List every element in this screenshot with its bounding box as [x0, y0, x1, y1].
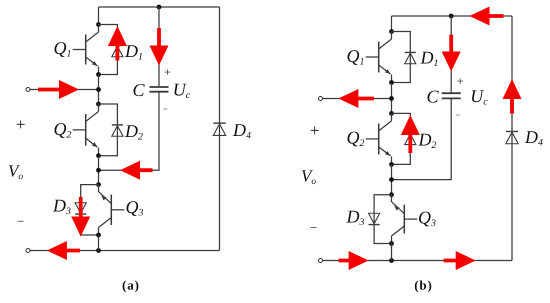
wire: (b) rail Q1-Q2 [391, 83, 393, 114]
svg-text:−: − [17, 214, 24, 229]
wire: (a) D3 branch [81, 185, 99, 235]
wire: (b) capacitor top lead [450, 16, 452, 93]
transistor Q1 (a) [73, 25, 99, 75]
svg-text:Q3: Q3 [418, 208, 436, 230]
diode D1 (b) [405, 52, 416, 63]
arrow (b) bottom current left segment, pointing right [339, 251, 369, 270]
wire: (a) input lead [30, 89, 99, 91]
arrow (b) input current, pointing left [338, 89, 374, 108]
svg-text:Q2: Q2 [347, 128, 365, 150]
wire: (b) D3 branch [374, 195, 391, 244]
diode D4 (a) [213, 123, 225, 135]
wire: (b) rail Q2-tap [391, 164, 393, 194]
arrow (a) D3 current, pointing down [71, 197, 90, 237]
transistor Q2 (a) [73, 104, 99, 156]
diode D2 (a) [112, 125, 123, 136]
node (a) top capacitor tap [157, 5, 162, 10]
arrow (a) freewheel current, pointing left [120, 161, 153, 180]
node (a) D3 top junction [96, 182, 101, 187]
terminal (b) bottom-left [319, 259, 323, 263]
svg-text:D2: D2 [418, 130, 437, 152]
wire: (b) capacitor bottom lead [392, 99, 452, 180]
node (b) Q1 emitter [389, 80, 394, 85]
diode D2 (b) [405, 133, 416, 144]
arrow (b) bottom current right segment, pointing right [444, 251, 476, 270]
node (a) Q1 emitter [96, 72, 101, 77]
capacitor C (a) [150, 86, 169, 88]
node (b) Q2 emitter [389, 162, 394, 167]
svg-text:(a): (a) [122, 278, 140, 293]
svg-text:−: − [310, 220, 317, 235]
svg-text:D4: D4 [524, 127, 543, 149]
node (b) input junction [389, 96, 394, 101]
diode D3 (b) [369, 213, 380, 224]
svg-text:+: + [164, 65, 171, 79]
wire: (a) capacitor bottom lead [99, 92, 160, 170]
node (b) Q1 collector [389, 29, 394, 34]
wire: (b) rail above Q1 [391, 16, 393, 32]
svg-text:+: + [310, 121, 320, 140]
svg-text:D1: D1 [124, 41, 143, 63]
wire: (a) top rail [99, 6, 220, 8]
node (a) Q1 collector [96, 22, 101, 27]
wire: (a) right branch vertical [219, 7, 221, 251]
svg-text:D2: D2 [124, 121, 143, 143]
wire: (b) input lead [323, 98, 392, 100]
wire: (b) top rail [392, 15, 513, 17]
transistor Q2 (b) [366, 113, 392, 164]
svg-text:Uc: Uc [470, 86, 488, 108]
node (b) Q2 collector [389, 111, 394, 116]
wire: (a) rail to bottom [98, 235, 100, 251]
wire: (b) rail to bottom [391, 244, 393, 261]
svg-text:Uc: Uc [173, 80, 191, 102]
transistor Q3 (a) [99, 185, 125, 235]
diode D3 (a) [75, 203, 86, 214]
node (a) D3 bottom junction [96, 233, 101, 238]
node (b) bottom rail junction [389, 258, 394, 263]
wire: (a) capacitor top lead [158, 7, 160, 87]
svg-text:D3: D3 [346, 207, 365, 229]
wire: (a) D2 branch [99, 104, 118, 156]
arrow (a) D1 current, pointing up [108, 26, 127, 61]
svg-text:Q2: Q2 [54, 119, 72, 141]
svg-text:Q3: Q3 [126, 197, 144, 219]
svg-text:(b): (b) [414, 278, 433, 293]
transistor Q3 (b) [392, 195, 418, 244]
svg-text:C: C [132, 80, 145, 100]
svg-text:D1: D1 [420, 48, 439, 70]
node (a) bottom rail junction [96, 248, 101, 253]
svg-text:−: − [163, 104, 168, 114]
node (a) input junction [96, 87, 101, 92]
svg-text:Vo: Vo [301, 167, 316, 188]
terminal (b) input left [319, 97, 323, 101]
transistor Q1 (b) [366, 32, 392, 83]
node (a) capacitor tap junction [96, 168, 101, 173]
node (b) capacitor tap junction [389, 177, 394, 182]
wire: (b) right branch vertical [511, 16, 513, 261]
node (a) Q2 emitter [96, 153, 101, 158]
wire: (b) D2 branch [392, 113, 411, 164]
arrow (a) input current, pointing right [38, 80, 79, 99]
arrow (b) D2 current, pointing up [401, 115, 420, 153]
diode D4 (b) [506, 131, 518, 143]
arrow (a) bottom output current, pointing left [47, 241, 80, 260]
terminal (a) bottom-left [26, 249, 30, 253]
arrow (b) D4 branch current, pointing up [503, 79, 522, 114]
wire: (a) bottom rail [30, 250, 220, 252]
svg-text:D4: D4 [232, 120, 251, 142]
svg-text:Q1: Q1 [347, 46, 365, 68]
node (b) top capacitor tap [449, 14, 454, 19]
wire: (a) rail Q1-Q2 [98, 75, 100, 105]
svg-text:+: + [16, 115, 26, 134]
diode D1 (a) [112, 45, 123, 56]
wire: (a) rail Q2-tap [98, 156, 100, 185]
node (b) D3 top junction [389, 192, 394, 197]
node (b) D3 bottom junction [389, 241, 394, 246]
arrow (a) capacitor charge current, pointing down [150, 28, 169, 66]
svg-text:+: + [457, 74, 464, 88]
svg-text:Vo: Vo [8, 162, 23, 183]
terminal (a) input left [26, 88, 30, 92]
node (a) Q2 collector [96, 102, 101, 107]
wire: (b) D1 branch [392, 32, 411, 83]
svg-text:−: − [455, 110, 460, 120]
arrow (b) capacitor discharge current, pointing down [442, 35, 461, 72]
svg-text:Q1: Q1 [54, 38, 72, 60]
wire: (b) bottom rail [323, 260, 513, 262]
capacitor C (b) [442, 92, 461, 94]
svg-text:C: C [426, 86, 439, 106]
wire: (a) D1 branch [99, 25, 118, 75]
wire: (a) rail above Q1 [98, 7, 100, 25]
svg-text:D3: D3 [52, 196, 71, 218]
arrow (b) top rail current, pointing left [470, 7, 504, 26]
